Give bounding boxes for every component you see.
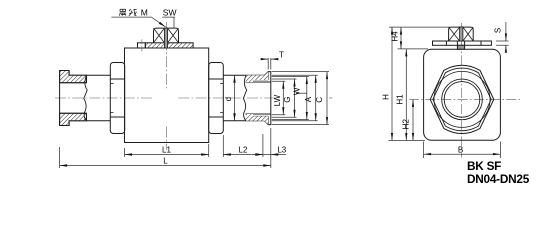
stem boss: [457, 45, 464, 49]
hex nut face outline: [430, 65, 494, 133]
left nut thread chamfer ticks: [110, 83, 113, 112]
W label underline: [296, 92, 307, 94]
chamfer circle: [434, 71, 490, 127]
dim T: [261, 58, 279, 70]
svg-text:S: S: [493, 28, 502, 33]
dim L: [60, 147, 271, 168]
label 螺纹M (CJK chars drawn as strokes for font safety): [119, 9, 136, 16]
dim H4 line: [400, 27, 402, 49]
end view texts: [381, 28, 529, 186]
LW arrows: [282, 81, 284, 89]
dim W line: [272, 77, 309, 120]
dim L3: [263, 128, 286, 157]
G arrows: [293, 79, 295, 87]
arrowheads end view: [391, 27, 507, 155]
port hatch top band: [246, 72, 268, 82]
end view stem bar: [460, 27, 463, 41]
port thread root lines: [246, 80, 268, 116]
dim A line: [272, 75, 318, 120]
dim C line: [272, 72, 329, 125]
S arrows outside: [505, 34, 507, 42]
left pipe break line: [84, 75, 87, 120]
svg-text:T: T: [279, 51, 284, 60]
svg-text:SW: SW: [163, 7, 177, 17]
dim H1 line: [405, 49, 407, 141]
right nut thread chamfer ticks: [220, 83, 223, 112]
port bore lines: [246, 82, 271, 114]
arrowheads side view: [60, 22, 329, 167]
H arrows: [391, 27, 393, 34]
valve body: [125, 48, 209, 143]
A arrows: [315, 75, 317, 83]
svg-text:d: d: [224, 97, 233, 101]
mounting plate hatched: [145, 43, 193, 48]
thread circle inner: [444, 82, 480, 118]
svg-text:B: B: [458, 146, 463, 155]
H1 arrows: [405, 49, 407, 57]
L2 arrows: [223, 153, 231, 155]
svg-text:DN04-DN25: DN04-DN25: [467, 172, 530, 186]
ext body bottom: [389, 140, 426, 142]
svg-text:H: H: [381, 94, 390, 100]
dim L2: [223, 134, 263, 157]
stem bar: [164, 28, 167, 48]
top plate: [433, 41, 492, 45]
H2 arrows: [412, 99, 414, 107]
H4 arrows: [400, 27, 402, 34]
left union nut: [110, 63, 124, 134]
dim G line: [272, 79, 297, 117]
stem nut (SW) with X pattern: [154, 28, 179, 43]
square body: [424, 49, 501, 140]
left pipe flange section hatched: [60, 71, 87, 126]
centerline body vertical: [165, 22, 167, 88]
svg-text:BK SF: BK SF: [467, 159, 501, 173]
svg-text:H4: H4: [390, 31, 399, 42]
svg-text:L2: L2: [239, 145, 248, 154]
label SW leader: [162, 17, 175, 27]
svg-text:C: C: [315, 97, 324, 103]
svg-text:LW: LW: [273, 94, 282, 106]
tab centerline: [141, 39, 143, 51]
svg-text:L: L: [163, 156, 168, 165]
right union nut: [209, 63, 224, 134]
svg-text:G: G: [283, 96, 292, 102]
port hatch bottom band: [246, 114, 268, 125]
svg-text:L1: L1: [162, 145, 171, 154]
end view stem nut with X: [449, 27, 474, 41]
left tube outline: [87, 75, 111, 120]
svg-text:M: M: [141, 7, 148, 17]
T arrows: [261, 58, 269, 60]
B arrows: [424, 153, 432, 155]
L1 arrows: [125, 153, 133, 155]
right port tube outline: [223, 75, 264, 120]
C arrows: [326, 72, 328, 80]
side view texts: [119, 7, 324, 165]
dim L1: [125, 144, 209, 157]
svg-text:W: W: [293, 87, 302, 95]
svg-text:H1: H1: [396, 94, 405, 105]
dim d line: [234, 75, 236, 120]
dim S: [496, 22, 509, 52]
ext body top: [398, 48, 429, 50]
dim H line: [391, 27, 393, 140]
centerline main horizontal: [55, 97, 153, 99]
svg-text:L3: L3: [277, 145, 286, 154]
hex nut chamfer inner line: [433, 68, 491, 131]
ext top stem: [389, 26, 450, 28]
end view centerlines: [409, 98, 520, 100]
dim LW line: [272, 81, 286, 114]
port break line: [243, 75, 246, 120]
svg-text:H2: H2: [402, 119, 411, 130]
port collar chamfer and end: [264, 72, 270, 125]
dim B: [424, 142, 501, 159]
thread circle outer: [442, 79, 483, 120]
dim H2 line: [412, 99, 414, 140]
L arrows: [60, 164, 68, 166]
W arrows: [306, 77, 308, 85]
svg-text:A: A: [304, 96, 313, 102]
label 螺纹M leader: [111, 17, 165, 27]
left tab: [138, 43, 146, 48]
L3 arrows outside: [255, 153, 263, 155]
leader arrow to stem: [159, 22, 166, 27]
d arrows: [233, 75, 235, 83]
